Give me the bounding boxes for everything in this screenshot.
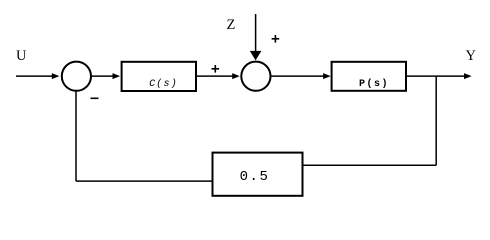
wire feedback up to summer S1 [75,91,77,181]
svg-text:Y: Y [466,48,477,64]
block C1 [122,62,196,91]
wire 0.5 block left side output [76,180,212,182]
block P1 [332,62,406,91]
summing junction S1 [62,62,91,91]
wire feedback into 0.5 block right side [302,164,436,166]
wire P(s) to output Y [407,73,472,79]
svg-text:0.5: 0.5 [240,169,270,185]
minus sign at S1 feedback input [91,97,99,99]
plus sign at S2 left input [212,65,220,73]
svg-text:P(s): P(s) [359,78,389,90]
block H1 feedback gain [213,153,303,196]
wire S1 to block C(s) [91,73,120,79]
wire C(s) to summer S2 [197,73,240,79]
summing junction S2 [241,62,270,91]
plus sign at S2 top input [272,35,280,43]
svg-text:C(s): C(s) [149,78,178,90]
wire Z to summer S2 [250,14,262,60]
wire S2 to block P(s) [271,73,331,79]
wire U input to summer S1 [16,73,59,79]
svg-text:U: U [16,48,27,64]
svg-text:Z: Z [227,17,236,33]
wire feedback branch down from output node [435,76,437,165]
